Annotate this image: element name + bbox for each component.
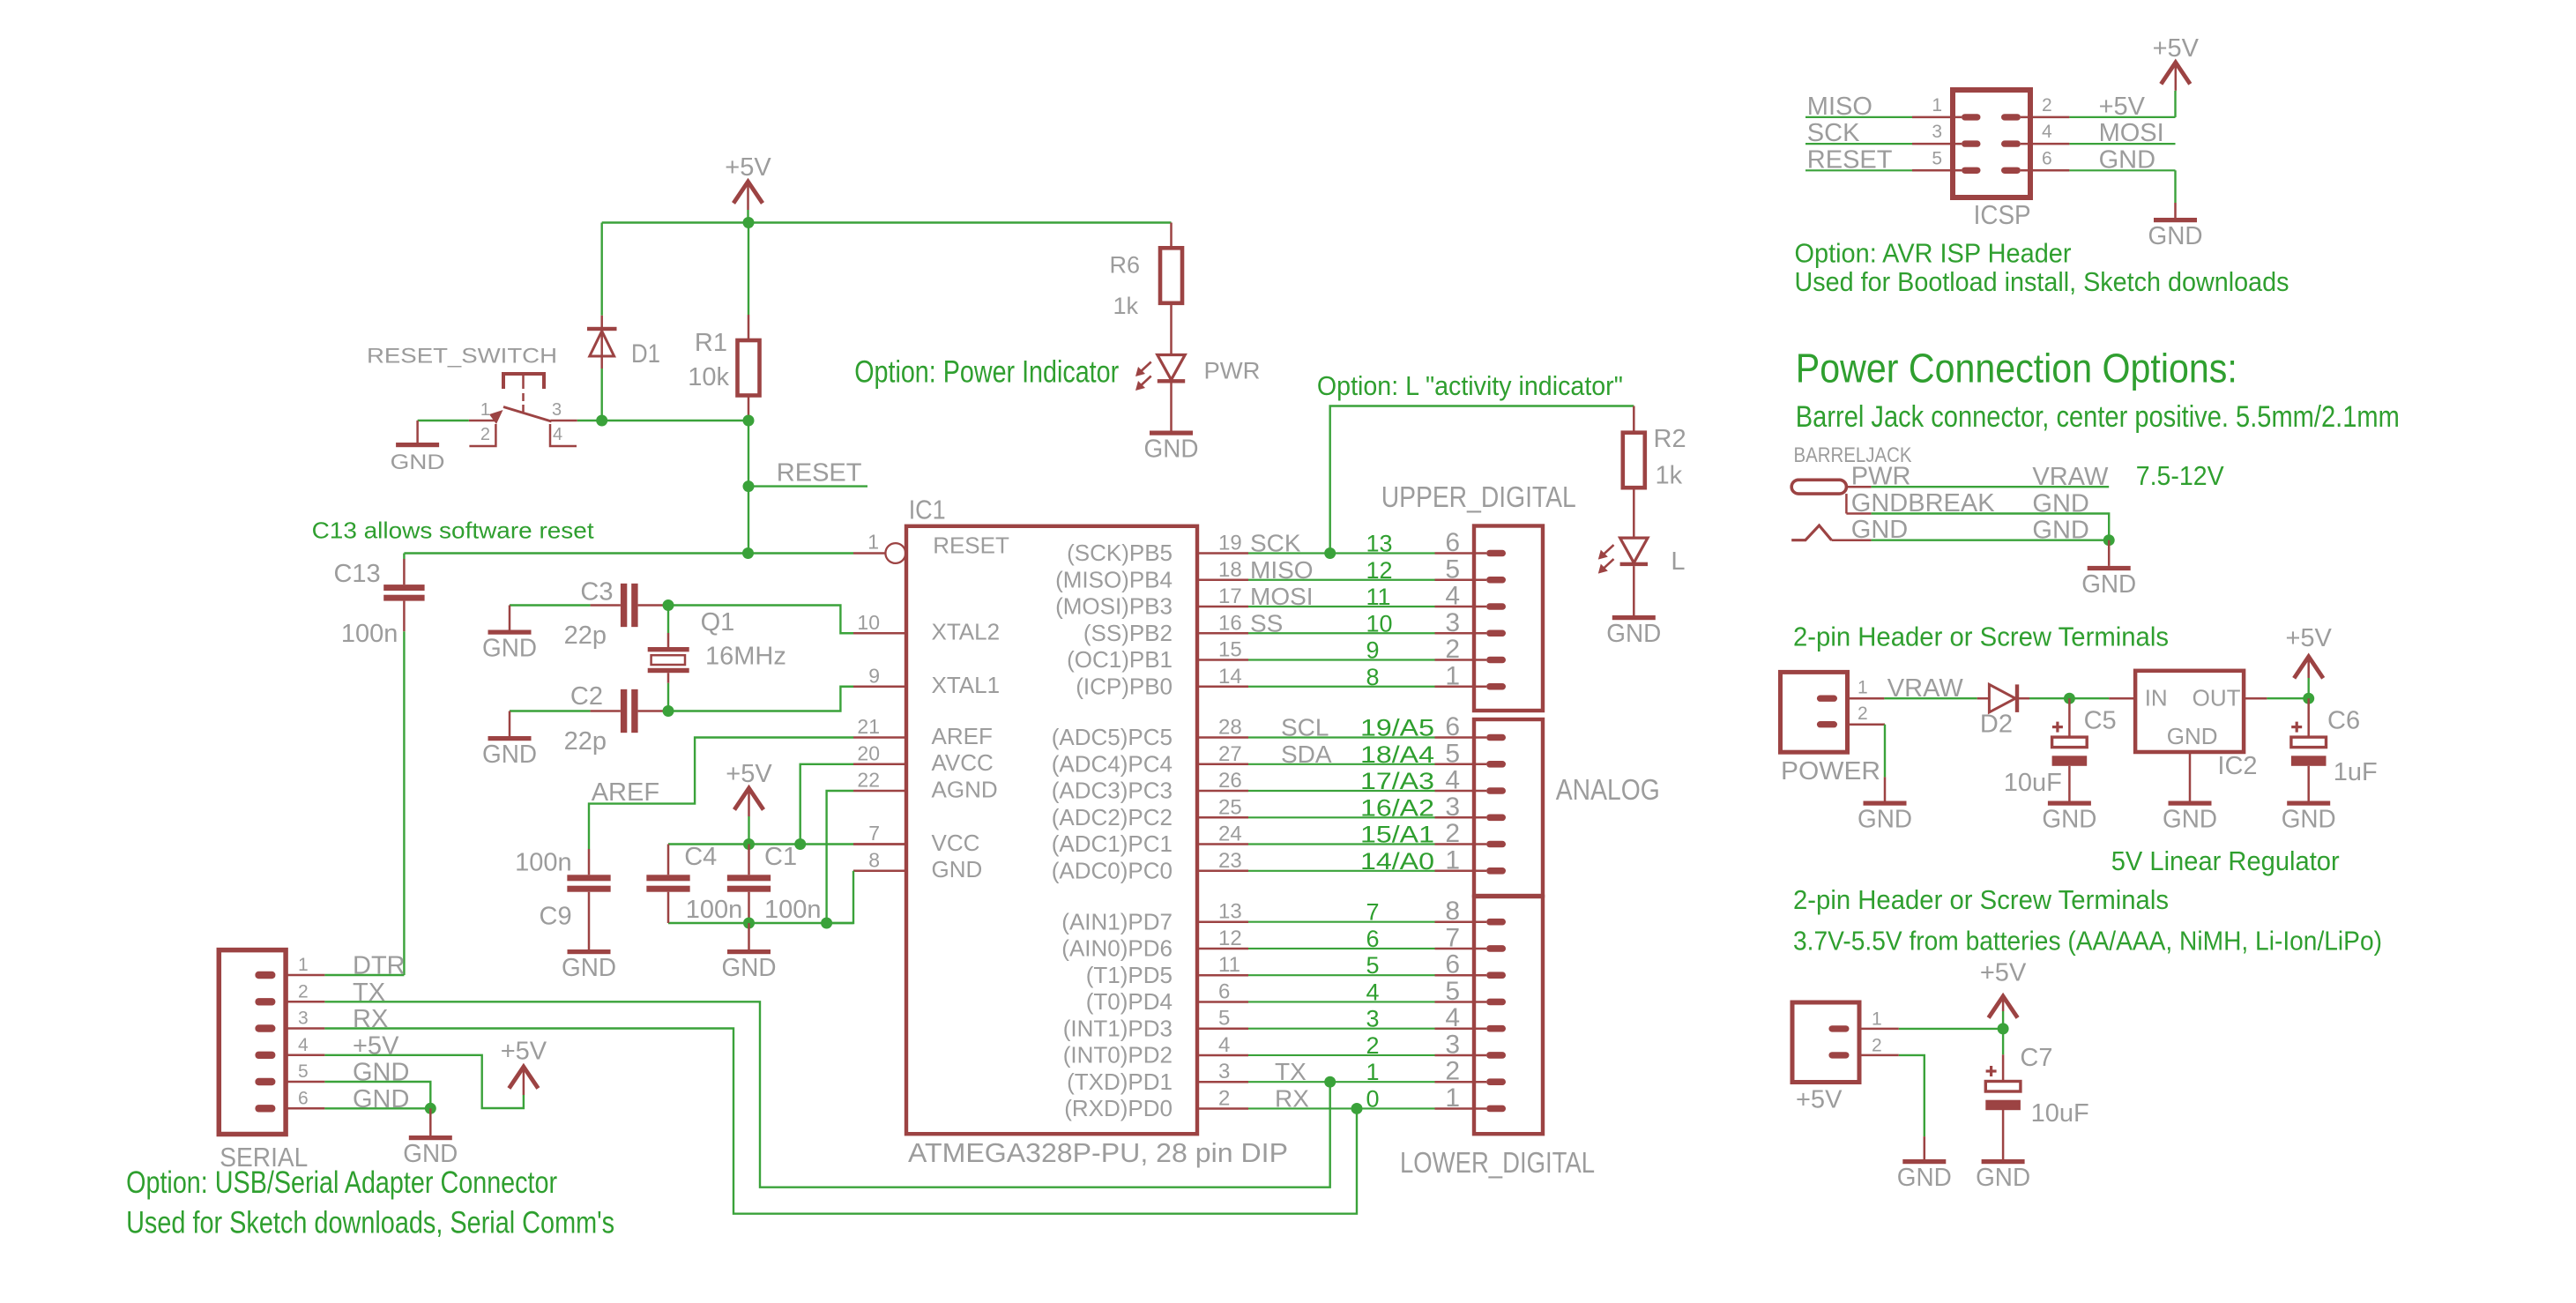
svg-text:(ADC3)PC3: (ADC3)PC3 xyxy=(1052,778,1173,804)
ground below C7 xyxy=(1982,1159,2025,1164)
svg-text:GND: GND xyxy=(1976,1164,2030,1192)
junction on RX net xyxy=(1351,1103,1363,1114)
ground at C2 xyxy=(509,711,511,737)
svg-text:+5V: +5V xyxy=(2153,34,2200,63)
svg-text:POWER: POWER xyxy=(1781,757,1880,786)
wire net from pin 14 to header xyxy=(1248,686,1435,688)
svg-text:2: 2 xyxy=(1872,1035,1882,1055)
svg-text:6: 6 xyxy=(1366,926,1380,952)
POWER pad pin 2 xyxy=(1817,721,1837,727)
ANALOG pad pin 2 xyxy=(1486,841,1506,848)
IC1 pin 17 (MOSI)PB3 xyxy=(1197,606,1248,608)
junction +5V/C1 on VCC row xyxy=(743,838,755,850)
wire TX serial to IC TX xyxy=(324,1001,1329,1187)
SERIAL pad pin 4 xyxy=(255,1052,275,1059)
svg-text:Used for Bootload install, Ske: Used for Bootload install, Sketch downlo… xyxy=(1795,266,2289,297)
capacitor C1 bottom lead xyxy=(748,892,750,923)
IC1 pin 2 (RXD)PD0 xyxy=(1197,1107,1248,1110)
header LOWER_DIGITAL xyxy=(1474,897,1543,1134)
wire net from pin 6 to header xyxy=(1248,1001,1435,1002)
wire net from pin 27 to header xyxy=(1248,763,1435,765)
svg-text:SCL: SCL xyxy=(1281,714,1329,741)
svg-text:4: 4 xyxy=(2042,122,2052,142)
svg-text:MOSI: MOSI xyxy=(2099,119,2164,147)
svg-text:19/A5: 19/A5 xyxy=(1360,715,1434,741)
header ANALOG xyxy=(1474,719,1543,896)
wire C3 to XTAL2 xyxy=(663,606,853,634)
ground below LED L xyxy=(1612,615,1656,620)
svg-text:MISO: MISO xyxy=(1807,93,1872,121)
svg-text:13: 13 xyxy=(1218,900,1242,924)
battery header pad pin 1 xyxy=(1828,1025,1849,1031)
svg-text:AREF: AREF xyxy=(932,723,993,749)
svg-text:2: 2 xyxy=(1366,1032,1380,1059)
wire SCK tap up and right to R2 xyxy=(1330,406,1634,554)
svg-text:6: 6 xyxy=(2042,148,2052,168)
junction AVCC drop on VCC row xyxy=(794,838,806,850)
wire net from pin 24 to header xyxy=(1248,843,1435,845)
svg-text:SDA: SDA xyxy=(1281,741,1332,768)
UPPER_DIGITAL pad pin 2 xyxy=(1486,657,1506,664)
ground at reset switch xyxy=(416,421,419,443)
wire +5V rail down to D1 xyxy=(601,223,603,316)
ICSP pad pin 4 xyxy=(2001,140,2021,146)
svg-text:10uF: 10uF xyxy=(2004,769,2062,797)
wire jack GND xyxy=(1872,540,2110,541)
IC1 pin 22 AGND xyxy=(853,790,906,793)
svg-text:GND: GND xyxy=(2163,806,2217,834)
wire up to +5V symbol xyxy=(2307,678,2309,698)
SERIAL pad pin 5 xyxy=(255,1078,275,1085)
svg-text:11: 11 xyxy=(1366,584,1391,610)
capacitor C3 right lead xyxy=(638,604,663,607)
svg-text:(ADC4)PC4: (ADC4)PC4 xyxy=(1052,751,1173,778)
resistor R1 xyxy=(748,315,750,340)
svg-text:MOSI: MOSI xyxy=(1250,583,1314,610)
wire down to C7 xyxy=(2002,1029,2004,1054)
svg-text:(T0)PD4: (T0)PD4 xyxy=(1086,988,1173,1015)
svg-text:4: 4 xyxy=(1445,766,1460,795)
svg-text:ANALOG: ANALOG xyxy=(1556,773,1660,806)
junction RESET stub xyxy=(743,480,755,492)
junction jack grounds xyxy=(2103,534,2115,546)
IC1 pin 10 XTAL2 xyxy=(853,632,906,635)
capacitor C1 top lead xyxy=(748,845,750,875)
svg-text:GND: GND xyxy=(1144,436,1199,464)
junction AGND on ground row xyxy=(821,918,832,929)
battery header pad pin 2 xyxy=(1828,1052,1849,1058)
svg-text:8: 8 xyxy=(1366,664,1380,690)
svg-text:2: 2 xyxy=(1445,819,1460,848)
svg-text:7: 7 xyxy=(1445,923,1460,952)
regulator IC2 body xyxy=(2135,671,2244,752)
wire switch pin3 to D1/R1 row xyxy=(577,420,748,421)
svg-text:17: 17 xyxy=(1218,584,1242,608)
svg-text:17/A3: 17/A3 xyxy=(1360,768,1434,794)
LED PWR xyxy=(1158,355,1185,380)
UPPER_DIGITAL pad pin 5 xyxy=(1486,577,1506,584)
svg-text:C3: C3 xyxy=(580,577,613,606)
svg-text:18: 18 xyxy=(1218,558,1242,582)
svg-text:12: 12 xyxy=(1218,927,1242,950)
svg-text:100n: 100n xyxy=(515,848,572,876)
svg-text:GND: GND xyxy=(2081,570,2136,599)
header SERIAL connector xyxy=(219,950,286,1135)
svg-text:+5V: +5V xyxy=(725,153,771,182)
svg-text:9: 9 xyxy=(868,664,880,687)
svg-text:(ADC0)PC0: (ADC0)PC0 xyxy=(1052,858,1173,884)
svg-text:(SS)PB2: (SS)PB2 xyxy=(1083,620,1173,646)
svg-text:2: 2 xyxy=(1445,1057,1460,1086)
IC1 pin 27 (ADC4)PC4 xyxy=(1197,763,1248,766)
IC1 pin 24 (ADC1)PC1 xyxy=(1197,843,1248,845)
svg-text:19: 19 xyxy=(1218,532,1242,555)
wire net from pin 4 to header xyxy=(1248,1054,1435,1056)
IC1 pin 3 (TXD)PD1 xyxy=(1197,1081,1248,1083)
junction C1 ground xyxy=(743,918,755,929)
svg-text:6: 6 xyxy=(1218,979,1230,1003)
diode D1 xyxy=(600,316,603,329)
IC1 pin 20 AVCC xyxy=(853,763,906,766)
LOWER_DIGITAL pad pin 5 xyxy=(1486,999,1506,1006)
IC1 pin 25 (ADC2)PC2 xyxy=(1197,816,1248,819)
svg-text:2: 2 xyxy=(480,425,490,444)
UPPER_DIGITAL pad pin 4 xyxy=(1486,603,1506,610)
SERIAL pad pin 3 xyxy=(255,1024,275,1031)
svg-text:Power Connection Options:: Power Connection Options: xyxy=(1796,346,2237,391)
svg-text:1: 1 xyxy=(298,955,309,975)
svg-text:15/A1: 15/A1 xyxy=(1360,822,1434,848)
svg-text:25: 25 xyxy=(1218,795,1242,819)
ground at C3 xyxy=(509,606,511,630)
wire up to +5V symbol (battery) xyxy=(2002,1011,2004,1029)
svg-text:Option: AVR ISP Header: Option: AVR ISP Header xyxy=(1795,238,2072,269)
svg-text:ICSP: ICSP xyxy=(1974,199,2031,230)
wire DTR serial to C13 xyxy=(324,974,404,976)
svg-text:20: 20 xyxy=(857,741,880,764)
switch pin 1 line xyxy=(469,420,495,422)
LED L xyxy=(1620,538,1648,562)
LOWER_DIGITAL pad pin 6 xyxy=(1486,972,1506,979)
wire R2 to LED L xyxy=(1633,488,1635,538)
ICSP pin 1 wire MISO xyxy=(1805,116,1912,118)
ICSP pin 3 wire SCK xyxy=(1805,143,1912,145)
svg-text:8: 8 xyxy=(1445,897,1460,926)
svg-text:GND: GND xyxy=(482,635,537,663)
+5V supply symbol (top rail) xyxy=(733,182,763,204)
svg-text:2: 2 xyxy=(1218,1086,1230,1110)
junction serial grounds xyxy=(425,1103,436,1114)
svg-text:D1: D1 xyxy=(631,339,660,369)
svg-text:6: 6 xyxy=(1445,528,1460,557)
svg-text:Option: USB/Serial Adapter Con: Option: USB/Serial Adapter Connector xyxy=(126,1165,557,1200)
svg-text:(ICP)PB0: (ICP)PB0 xyxy=(1076,673,1173,699)
svg-text:XTAL2: XTAL2 xyxy=(932,619,1001,645)
UPPER_DIGITAL pad pin 3 xyxy=(1486,629,1506,637)
IC1 pin 26 (ADC3)PC3 xyxy=(1197,790,1248,793)
svg-text:Option: Power Indicator: Option: Power Indicator xyxy=(854,354,1119,389)
ground below C5 xyxy=(2048,801,2091,806)
svg-text:0: 0 xyxy=(1366,1085,1380,1112)
barrel jack X1 tip contact xyxy=(1791,480,1846,494)
svg-text:IC1: IC1 xyxy=(909,495,946,525)
svg-text:AREF: AREF xyxy=(592,778,659,807)
capacitor C2 lead xyxy=(591,710,621,712)
wire ICSP GND down xyxy=(2174,170,2176,203)
wire POWER pin2 to ground xyxy=(1884,725,1886,778)
svg-text:GND: GND xyxy=(482,741,537,769)
capacitor C2 xyxy=(621,689,627,733)
battery pin2 stub xyxy=(1859,1054,1899,1057)
IC1 pin 9 XTAL1 xyxy=(853,686,906,689)
+5V supply at regulator output xyxy=(2294,657,2323,679)
IC1 pin 1 RESET stub with inversion bubble xyxy=(853,552,885,555)
wire serial GND pin5 xyxy=(324,1082,430,1108)
capacitor C7 bottom lead xyxy=(2002,1109,2005,1159)
wire AVCC jog xyxy=(800,764,853,845)
svg-text:+5V: +5V xyxy=(1980,959,2027,987)
svg-text:GND: GND xyxy=(2167,723,2218,749)
ground at battery header xyxy=(1902,1159,1946,1164)
svg-text:4: 4 xyxy=(1445,1003,1460,1032)
svg-text:100n: 100n xyxy=(341,620,398,648)
IC1 pin 14 (ICP)PB0 xyxy=(1197,686,1248,689)
svg-text:(SCK)PB5: (SCK)PB5 xyxy=(1067,540,1173,566)
svg-text:Option: L "activity indicator": Option: L "activity indicator" xyxy=(1317,370,1623,401)
SERIAL pad pin 2 xyxy=(255,998,275,1005)
resistor R6 body xyxy=(1160,248,1182,303)
svg-text:24: 24 xyxy=(1218,823,1242,846)
svg-text:(MOSI)PB3: (MOSI)PB3 xyxy=(1055,593,1173,620)
wire net from pin 12 to header xyxy=(1248,948,1435,949)
switch pin 4 stub xyxy=(550,424,577,446)
ICSP pin 5 wire RESET xyxy=(1805,169,1912,171)
IC1 pin 18 (MISO)PB4 xyxy=(1197,579,1248,582)
resistor R2 body xyxy=(1623,433,1645,488)
svg-text:GND: GND xyxy=(2099,145,2155,174)
svg-text:C5: C5 xyxy=(2084,706,2117,734)
svg-text:2: 2 xyxy=(1858,704,1868,724)
capacitor C3 xyxy=(621,584,627,627)
ANALOG pad pin 1 xyxy=(1486,867,1506,875)
SERIAL pin 6 stub xyxy=(287,1107,324,1110)
svg-text:SS: SS xyxy=(1250,609,1283,637)
ICSP pad pin 2 xyxy=(2001,114,2021,120)
svg-text:14/A0: 14/A0 xyxy=(1360,848,1434,875)
junction on TX net xyxy=(1324,1076,1336,1088)
svg-text:R6: R6 xyxy=(1109,251,1140,278)
svg-text:Q1: Q1 xyxy=(701,608,735,637)
svg-text:(ADC2)PC2: (ADC2)PC2 xyxy=(1052,804,1173,830)
svg-text:12: 12 xyxy=(1366,557,1393,584)
wire AREF from IC pin 21 xyxy=(589,738,853,850)
IC1 pin 23 (ADC0)PC0 xyxy=(1197,870,1248,873)
svg-text:4: 4 xyxy=(298,1035,309,1055)
svg-text:VRAW: VRAW xyxy=(1887,674,1964,703)
svg-text:2: 2 xyxy=(2042,95,2052,115)
svg-text:10: 10 xyxy=(857,611,880,634)
svg-text:3: 3 xyxy=(1445,1030,1460,1059)
wire PWR to VRAW xyxy=(1872,486,2110,488)
ICSP pin 2 wire +5V xyxy=(2021,116,2069,119)
svg-text:1: 1 xyxy=(1445,661,1460,690)
+5V supply at serial header xyxy=(509,1067,538,1089)
svg-text:AVCC: AVCC xyxy=(932,749,994,776)
svg-text:13: 13 xyxy=(1366,531,1393,557)
IC1 ATMEGA328P body xyxy=(906,526,1197,1134)
svg-text:3: 3 xyxy=(1445,608,1460,637)
svg-text:6: 6 xyxy=(298,1088,309,1108)
ICSP pad pin 1 xyxy=(1962,114,1981,120)
wire +5V to R1 xyxy=(748,223,749,316)
junction C6 tap xyxy=(2303,693,2314,704)
barrel jack sleeve link xyxy=(1845,494,1848,513)
svg-text:C6: C6 xyxy=(2327,706,2360,734)
diode D2 xyxy=(1977,697,1990,700)
SERIAL pin 4 stub xyxy=(287,1054,324,1057)
IC1 pin 6 (T0)PD4 xyxy=(1197,1001,1248,1003)
svg-text:100n: 100n xyxy=(686,896,743,924)
wire to R2 xyxy=(1633,406,1635,433)
LOWER_DIGITAL pad pin 1 xyxy=(1486,1106,1506,1113)
header battery +5V input xyxy=(1792,1002,1859,1083)
wire D1 anode to switch row xyxy=(601,369,603,421)
svg-text:(ADC5)PC5: (ADC5)PC5 xyxy=(1052,724,1173,750)
SERIAL pin 3 stub xyxy=(287,1027,324,1030)
ANALOG pad pin 5 xyxy=(1486,761,1506,768)
ground below PWR LED xyxy=(1150,431,1193,436)
svg-text:Barrel Jack connector, center: Barrel Jack connector, center positive. … xyxy=(1796,400,2400,434)
header ICSP xyxy=(1953,90,2030,197)
svg-text:28: 28 xyxy=(1218,716,1242,740)
svg-text:(AIN0)PD6: (AIN0)PD6 xyxy=(1061,935,1173,962)
svg-text:+5V: +5V xyxy=(2285,624,2332,652)
ANALOG pad pin 4 xyxy=(1486,787,1506,794)
IC1 pin 5 (INT1)PD3 xyxy=(1197,1027,1248,1030)
wire net from pin 2 to header xyxy=(1248,1107,1435,1109)
capacitor C6 (polarized) xyxy=(2291,726,2302,728)
svg-text:5: 5 xyxy=(298,1061,309,1082)
UPPER_DIGITAL pad pin 6 xyxy=(1486,550,1506,557)
svg-text:RX: RX xyxy=(1275,1084,1309,1112)
capacitor C6 top lead xyxy=(2307,698,2310,737)
capacitor C7 (polarized) xyxy=(1986,1069,1997,1072)
svg-text:GND: GND xyxy=(2042,806,2096,834)
svg-text:+5V: +5V xyxy=(726,760,772,788)
ground below C6 xyxy=(2287,801,2330,806)
svg-text:4: 4 xyxy=(1445,582,1460,611)
svg-text:1k: 1k xyxy=(1113,293,1138,319)
svg-text:1k: 1k xyxy=(1656,461,1683,489)
svg-text:GND: GND xyxy=(2282,806,2336,834)
svg-text:(OC1)PB1: (OC1)PB1 xyxy=(1067,646,1173,673)
wire VCC row xyxy=(668,843,853,845)
svg-text:GND: GND xyxy=(1606,620,1661,648)
svg-text:7: 7 xyxy=(1366,899,1380,926)
svg-text:IN: IN xyxy=(2145,685,2168,711)
capacitor C13 xyxy=(383,584,424,591)
svg-text:VRAW: VRAW xyxy=(2032,463,2109,491)
svg-text:2-pin Header or Screw Terminal: 2-pin Header or Screw Terminals xyxy=(1793,621,2169,651)
wire ground row under C4/C1 xyxy=(668,922,853,924)
svg-text:5: 5 xyxy=(1932,148,1942,168)
svg-text:OUT: OUT xyxy=(2193,685,2241,711)
svg-text:1: 1 xyxy=(867,531,879,554)
wire net from pin 26 to header xyxy=(1248,790,1435,792)
UPPER_DIGITAL pad pin 1 xyxy=(1486,683,1506,690)
svg-text:R2: R2 xyxy=(1654,425,1686,453)
svg-text:5: 5 xyxy=(1218,1007,1230,1031)
svg-text:+5V: +5V xyxy=(1796,1086,1843,1114)
svg-text:AGND: AGND xyxy=(932,776,998,802)
svg-text:5: 5 xyxy=(1366,952,1380,979)
svg-text:SCK: SCK xyxy=(1250,530,1301,557)
LOWER_DIGITAL pad pin 7 xyxy=(1486,945,1506,952)
wire net from pin 3 to header xyxy=(1248,1081,1435,1083)
wire RX serial to IC RX xyxy=(324,1029,1357,1214)
svg-text:1: 1 xyxy=(1858,677,1868,697)
POWER pin1 stub xyxy=(1848,697,1885,700)
wire serial +5V xyxy=(324,1055,524,1108)
svg-text:3: 3 xyxy=(1445,793,1460,822)
svg-text:GND: GND xyxy=(932,856,983,882)
svg-text:GND: GND xyxy=(722,954,777,982)
svg-text:MISO: MISO xyxy=(1250,556,1314,584)
svg-text:11: 11 xyxy=(1218,953,1240,977)
wire net from pin 15 to header xyxy=(1248,659,1435,660)
resistor R1 body xyxy=(738,340,760,396)
svg-text:+5V: +5V xyxy=(501,1038,547,1066)
svg-text:16: 16 xyxy=(1218,611,1242,635)
svg-text:4: 4 xyxy=(553,425,562,444)
wire RESET net stub xyxy=(748,485,867,487)
wire OUT to +5V xyxy=(2267,697,2308,699)
wire net from pin 13 to header xyxy=(1248,921,1435,923)
junction on SCK net (L indicator tap) xyxy=(1324,547,1336,559)
IC1 pin 13 (AIN1)PD7 xyxy=(1197,920,1248,923)
wire GNDBREAK xyxy=(1872,514,2110,540)
wire C13 to DTR net xyxy=(403,601,406,632)
IC1 pin 7 VCC xyxy=(853,843,906,845)
IC1 pin 16 (SS)PB2 xyxy=(1197,632,1248,635)
capacitor C4 xyxy=(646,875,689,881)
svg-text:3.7V-5.5V from batteries (AA/A: 3.7V-5.5V from batteries (AA/AAA, NiMH, … xyxy=(1793,925,2382,956)
IC2 IN pin stub xyxy=(2109,697,2135,700)
junction C2/Q1 xyxy=(663,705,674,717)
svg-text:GND: GND xyxy=(1851,516,1908,544)
capacitor C5 (polarized) xyxy=(2052,726,2063,728)
capacitor C9 bottom lead xyxy=(588,892,591,949)
wire +5V rail xyxy=(602,221,1172,223)
battery pin2 ground lead xyxy=(1924,1136,1926,1159)
svg-text:27: 27 xyxy=(1218,742,1242,766)
wire net from pin 18 to header xyxy=(1248,579,1435,581)
wire +5V down to VCC row xyxy=(748,817,749,845)
SERIAL pad pin 1 xyxy=(255,972,275,979)
svg-text:9: 9 xyxy=(1366,637,1380,664)
svg-text:10: 10 xyxy=(1366,610,1393,637)
SERIAL pin 1 stub xyxy=(287,974,324,977)
IC2 GND pin xyxy=(2189,752,2192,801)
svg-text:RESET: RESET xyxy=(933,532,1009,558)
wire net from pin 23 to header xyxy=(1248,870,1435,872)
svg-text:(TXD)PD1: (TXD)PD1 xyxy=(1067,1068,1173,1095)
header POWER xyxy=(1781,672,1848,752)
svg-text:LOWER_DIGITAL: LOWER_DIGITAL xyxy=(1400,1146,1595,1179)
junction R1/switch row xyxy=(743,415,755,427)
svg-text:RESET_SWITCH: RESET_SWITCH xyxy=(367,345,557,369)
svg-text:23: 23 xyxy=(1218,849,1242,873)
